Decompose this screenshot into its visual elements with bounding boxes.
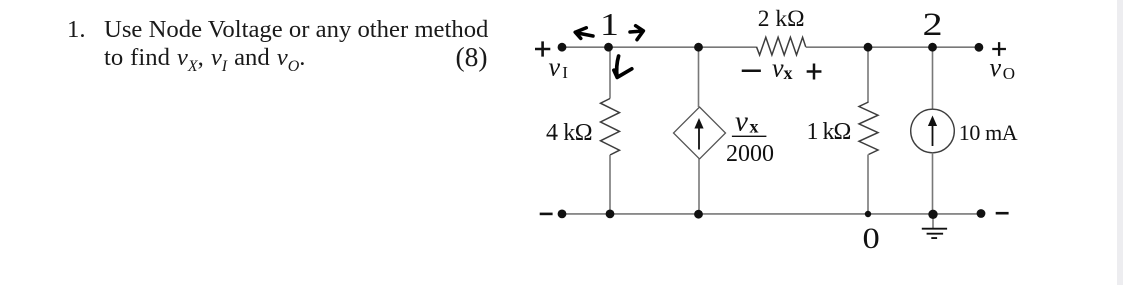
question text line 2 <box>104 44 305 76</box>
svg-text:v: v <box>990 53 1002 82</box>
plus sign at vI terminal <box>536 43 549 56</box>
node dot 1k bottom junction <box>865 211 871 217</box>
current source arrow <box>932 125 934 146</box>
wire 1k bottom lead <box>867 155 869 214</box>
minus sign bottom-left terminal <box>541 213 551 216</box>
current source I 10mA circle <box>911 109 955 153</box>
svg-text:x: x <box>784 63 793 83</box>
node dot top-left terminal <box>558 43 567 52</box>
svg-text:1: 1 <box>600 7 619 43</box>
wire current source bottom lead <box>932 153 934 215</box>
points (8) <box>456 41 488 73</box>
annotation arrow right of node 1 <box>630 26 643 40</box>
resistor R 2 kOhm (horizontal zigzag) <box>757 37 806 55</box>
wire bottom rail <box>562 213 981 215</box>
svg-text:2: 2 <box>923 5 943 42</box>
wire diamond top lead <box>698 47 700 107</box>
wire 1k top lead <box>867 47 869 102</box>
node dot 4k bottom junction <box>606 210 615 219</box>
right gray strip <box>1117 0 1123 285</box>
wire top rail right of 2k to right terminal <box>806 46 979 48</box>
wire 4k bottom lead <box>609 155 611 214</box>
minus sign of vx polarity <box>743 70 760 73</box>
svg-text:I: I <box>562 63 568 82</box>
wire current source top lead <box>932 47 934 109</box>
svg-text:1 kΩ: 1 kΩ <box>807 119 851 145</box>
wire 4k top lead <box>609 47 611 98</box>
svg-text:0: 0 <box>863 221 880 254</box>
svg-text:2000: 2000 <box>726 141 774 167</box>
annotation arrow down at node 1 <box>614 56 632 77</box>
ground symbol <box>922 229 947 238</box>
svg-text:v: v <box>549 52 561 81</box>
node dot diamond bottom junction <box>694 210 703 219</box>
plus sign at vO terminal <box>993 43 1004 54</box>
svg-text:x: x <box>750 117 759 137</box>
node dot 1k top junction <box>864 43 873 52</box>
plus sign of vx polarity <box>808 65 820 78</box>
svg-text:2 kΩ: 2 kΩ <box>758 6 805 32</box>
node dot top-right terminal <box>975 43 984 52</box>
question number <box>67 16 86 44</box>
wire top rail left: terminal to node1 to 2k resistor <box>562 46 757 48</box>
svg-text:O: O <box>1003 64 1015 83</box>
annotation arrow left of node 1 <box>575 28 593 39</box>
svg-text:v: v <box>772 54 784 83</box>
node 0 ground junction dot <box>928 210 937 219</box>
svg-text:v: v <box>735 106 748 138</box>
wire diamond bottom lead <box>698 159 700 214</box>
node dot bottom-right terminal <box>977 209 986 218</box>
dependent source diamond <box>674 107 726 159</box>
node dot diamond top junction <box>694 43 703 52</box>
resistor R 1 kOhm (vertical zigzag) <box>859 102 878 155</box>
fraction bar of vx/2000 <box>733 135 766 137</box>
node 2 junction dot <box>928 43 937 52</box>
question text line 1 <box>104 16 488 44</box>
resistor R 4 kOhm (vertical zigzag) <box>601 99 620 156</box>
node 1 junction dot <box>604 43 613 52</box>
node dot bottom-left terminal <box>558 210 567 219</box>
ground stub <box>932 214 934 228</box>
dependent source arrow <box>698 127 700 150</box>
svg-text:4 kΩ: 4 kΩ <box>546 120 592 146</box>
svg-text:10 mA: 10 mA <box>959 120 1018 145</box>
minus sign bottom-right terminal <box>997 212 1007 215</box>
